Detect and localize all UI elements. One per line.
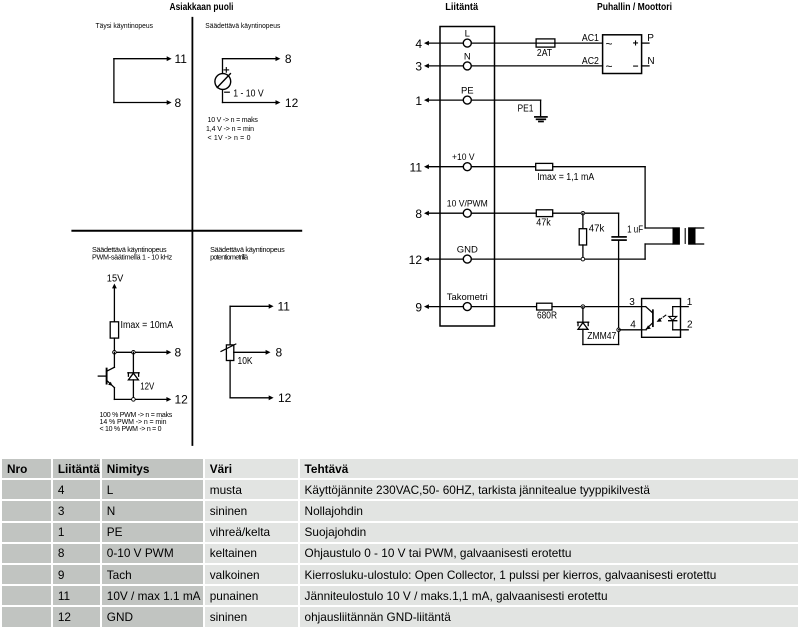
svg-text:12: 12	[175, 393, 189, 407]
wire terminal L to arrow	[428, 42, 463, 44]
wire source bottom	[222, 90, 224, 103]
wire to connector top	[645, 227, 672, 229]
wire pot to 12	[230, 397, 269, 399]
svg-text:8: 8	[276, 346, 283, 360]
svg-text:Imax = 1,1 mA: Imax = 1,1 mA	[537, 172, 594, 183]
svg-text:~: ~	[606, 37, 613, 51]
svg-text:10 V/PWM: 10 V/PWM	[447, 199, 488, 210]
svg-text:ZMM47: ZMM47	[587, 331, 616, 342]
wire 10 V/PWM right	[471, 212, 536, 214]
light arrow	[657, 315, 666, 322]
svg-text:1 - 10 V: 1 - 10 V	[233, 89, 264, 100]
svg-text:8: 8	[285, 52, 292, 66]
svg-text:14 % PWM -> n = min: 14 % PWM -> n = min	[100, 419, 167, 426]
svg-text:GND: GND	[457, 245, 478, 256]
svg-text:~: ~	[606, 60, 613, 74]
terminal GND row 12	[409, 245, 645, 267]
wire GND up to connector	[644, 244, 646, 259]
svg-text:4: 4	[630, 320, 636, 331]
wire pin4	[619, 329, 642, 331]
junction	[132, 398, 136, 402]
terminal block X1	[440, 27, 495, 327]
wire terminal GND to arrow	[428, 258, 463, 260]
wire N stub	[642, 65, 649, 67]
svg-text:−: −	[633, 61, 639, 72]
arrow to node 11	[424, 164, 429, 169]
wire tach to opto pin3	[552, 306, 642, 308]
junction	[617, 328, 621, 332]
junction	[581, 305, 585, 309]
svg-text:12: 12	[409, 253, 423, 267]
svg-text:P: P	[647, 33, 654, 44]
svg-text:3: 3	[629, 297, 635, 308]
wire cap line down	[618, 259, 620, 344]
svg-text:11: 11	[410, 161, 423, 175]
svg-text:< 10 % PWM -> n = 0: < 10 % PWM -> n = 0	[100, 426, 162, 433]
svg-text:8: 8	[175, 96, 182, 110]
wire pin2	[673, 329, 689, 331]
terminal 10V/PWM row 8	[415, 199, 536, 221]
wire full-speed to 8	[114, 102, 167, 104]
wire PE right	[471, 99, 540, 101]
capacitor C1 1uF	[612, 213, 626, 259]
svg-text:8: 8	[175, 346, 182, 360]
arrow to node 1	[424, 98, 429, 103]
subtitle potentiometer section	[210, 245, 285, 262]
junction	[581, 257, 585, 261]
wire terminal +10 V to arrow	[428, 166, 463, 168]
motor M1 box	[603, 35, 642, 74]
svg-text:680R: 680R	[537, 311, 557, 322]
wire resistor to node	[113, 338, 115, 352]
svg-text:Imax = 10mA: Imax = 10mA	[121, 320, 174, 331]
terminal PE row 1	[415, 86, 540, 108]
wire source to 8	[223, 58, 276, 60]
wire PE down	[540, 100, 542, 117]
connection table	[0, 457, 800, 627]
wire pot top vertical	[229, 306, 231, 345]
wire GND right	[471, 258, 645, 260]
svg-text:potentiometrillä: potentiometrillä	[210, 253, 248, 262]
svg-text:1 uF: 1 uF	[627, 225, 643, 236]
resistor R3 Imax	[536, 163, 553, 170]
svg-text:< 1V -> n = 0: < 1V -> n = 0	[208, 135, 251, 142]
terminal circle +10 V	[463, 163, 471, 171]
LED D3	[669, 307, 677, 330]
wire +10V to corner	[553, 166, 645, 168]
resistor R6 680R	[537, 303, 552, 310]
svg-text:3: 3	[415, 60, 422, 74]
wire corner down	[644, 167, 646, 228]
svg-text:11: 11	[175, 52, 188, 66]
subtitle PWM section	[92, 245, 173, 262]
svg-text:47k: 47k	[589, 224, 605, 235]
svg-text:Liitäntä: Liitäntä	[445, 2, 478, 13]
wire source to 12	[223, 102, 276, 104]
svg-text:9: 9	[415, 300, 422, 314]
wire terminal 10 V/PWM to arrow	[428, 212, 463, 214]
connector J1 plug-socket	[673, 227, 704, 244]
transistor Q1	[98, 352, 114, 399]
wire L right	[471, 42, 536, 44]
svg-text:N: N	[464, 51, 471, 62]
svg-text:15V: 15V	[107, 274, 124, 285]
fuse F1 2AT	[536, 39, 602, 59]
svg-text:4: 4	[415, 37, 422, 51]
wire 15V supply with up arrow	[113, 287, 115, 322]
terminal circle L	[463, 39, 471, 47]
svg-text:1: 1	[415, 94, 422, 108]
svg-text:L: L	[465, 29, 470, 40]
svg-text:+10 V: +10 V	[452, 152, 475, 163]
wire wiper to 8	[234, 351, 266, 353]
resistor R4 47k	[536, 210, 552, 217]
svg-text:Asiakkaan puoli: Asiakkaan puoli	[170, 2, 234, 13]
svg-text:8: 8	[415, 207, 422, 221]
terminal circle PE	[463, 96, 471, 104]
svg-text:2AT: 2AT	[537, 48, 552, 59]
terminal L row 4	[415, 29, 536, 51]
svg-text:10 V -> n = maks: 10 V -> n = maks	[208, 117, 259, 124]
arrow to node 4	[424, 41, 429, 46]
potentiometer R2 10K	[221, 344, 236, 361]
wire terminal N to arrow	[428, 65, 463, 67]
divider vertical	[191, 18, 193, 445]
arrow to node 8	[424, 211, 429, 216]
note voltage mapping	[206, 117, 258, 142]
wire terminal PE to arrow	[428, 99, 463, 101]
note PWM mapping	[100, 412, 173, 433]
wire pot to 11	[230, 305, 269, 307]
terminal Takometri row 9	[415, 292, 536, 314]
wire source top	[222, 59, 224, 74]
wire to connector bottom	[645, 243, 672, 245]
svg-text:Täysi käyntinopeus: Täysi käyntinopeus	[96, 21, 154, 30]
svg-text:AC1: AC1	[582, 33, 599, 44]
svg-text:AC2: AC2	[582, 56, 599, 67]
terminal circle 10 V/PWM	[463, 209, 471, 217]
wire pin1	[673, 306, 689, 308]
zener diode D2 ZMM47	[578, 307, 589, 345]
svg-text:Säädettävä käyntinopeus: Säädettävä käyntinopeus	[205, 21, 280, 30]
optocoupler U1 box	[642, 299, 681, 338]
terminal circle GND	[463, 255, 471, 263]
svg-text:12: 12	[278, 391, 292, 405]
phototransistor Q2	[642, 307, 653, 330]
wire +10 V right	[471, 166, 535, 168]
resistor R5 47k vertical	[579, 213, 586, 259]
svg-text:PWM-säätimellä 1 - 10 kHz: PWM-säätimellä 1 - 10 kHz	[92, 253, 173, 262]
terminal +10V row 11	[410, 152, 536, 174]
wire full-speed to 11	[114, 58, 167, 60]
terminal circle N	[463, 62, 471, 70]
wire zener bottom	[583, 344, 619, 346]
svg-text:12: 12	[285, 96, 299, 110]
svg-text:12V: 12V	[140, 381, 154, 392]
svg-text:PE: PE	[461, 86, 474, 97]
svg-text:1: 1	[687, 297, 693, 308]
wire N right	[471, 65, 602, 67]
voltage source V1 1-10V	[215, 68, 231, 93]
wire pot bottom vertical	[229, 361, 231, 398]
zener diode D1 12V	[128, 352, 139, 399]
svg-text:2: 2	[687, 320, 693, 331]
wire Takometri right	[471, 306, 536, 308]
resistor R1	[110, 322, 118, 338]
wire row8 to cap	[553, 212, 619, 214]
terminal N row 3	[415, 51, 602, 73]
junction	[113, 351, 117, 355]
svg-text:Takometri: Takometri	[447, 292, 488, 303]
wire terminal Takometri to arrow	[428, 306, 463, 308]
svg-text:PE1: PE1	[518, 104, 534, 115]
divider horizontal	[72, 230, 301, 232]
wire full-speed vertical	[113, 59, 115, 103]
svg-text:N: N	[647, 56, 654, 67]
wire P stub	[642, 42, 649, 44]
svg-text:11: 11	[278, 300, 291, 314]
arrow to node 12	[424, 257, 429, 262]
wire node to 8	[114, 351, 166, 353]
arrow to node 9	[424, 304, 429, 309]
ground PE1	[535, 117, 547, 122]
terminal circle Takometri	[463, 303, 471, 311]
svg-text:47k: 47k	[536, 218, 551, 229]
svg-text:100 % PWM -> n = maks: 100 % PWM -> n = maks	[100, 412, 173, 419]
svg-text:+: +	[633, 39, 639, 50]
wire bottom to 12	[114, 398, 166, 400]
junction	[581, 211, 585, 215]
svg-text:1,4 V -> n = min: 1,4 V -> n = min	[206, 126, 254, 133]
junction	[132, 351, 136, 355]
svg-text:Puhallin / Moottori: Puhallin / Moottori	[597, 2, 672, 13]
arrow to node 3	[424, 64, 429, 69]
svg-text:10K: 10K	[238, 356, 253, 367]
